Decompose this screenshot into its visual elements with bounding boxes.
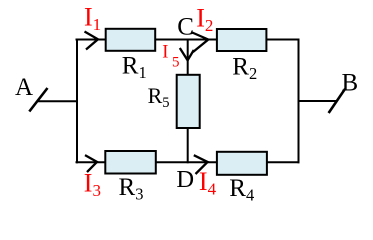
current arrow I5 — [180, 48, 194, 60]
resistor R4 — [217, 152, 267, 175]
wire left vertical bus — [76, 39, 78, 164]
current arrow I1 — [85, 32, 99, 50]
resistor R3 — [105, 151, 156, 174]
svg-text:D: D — [176, 166, 194, 193]
wire terminal A horizontal — [37, 100, 78, 102]
wire top horizontal — [76, 39, 300, 41]
resistor R1 — [106, 29, 156, 51]
svg-text:C: C — [177, 14, 194, 41]
terminal A slash — [29, 88, 47, 112]
svg-text:I: I — [162, 43, 168, 63]
svg-text:B: B — [342, 70, 359, 97]
resistor R5 — [177, 75, 200, 128]
svg-text:A: A — [15, 74, 33, 101]
wire middle vertical (C to D through R5) — [187, 39, 189, 164]
current arrow I2 — [191, 32, 208, 52]
wire right vertical bus — [298, 39, 300, 164]
terminal B slash — [329, 89, 346, 113]
current arrow I3 — [85, 155, 97, 172]
svg-text:5: 5 — [172, 54, 180, 70]
resistor R2 — [217, 29, 267, 51]
wire bottom horizontal — [76, 161, 300, 163]
current arrow I4 — [194, 155, 208, 174]
wire terminal B horizontal — [298, 100, 338, 102]
